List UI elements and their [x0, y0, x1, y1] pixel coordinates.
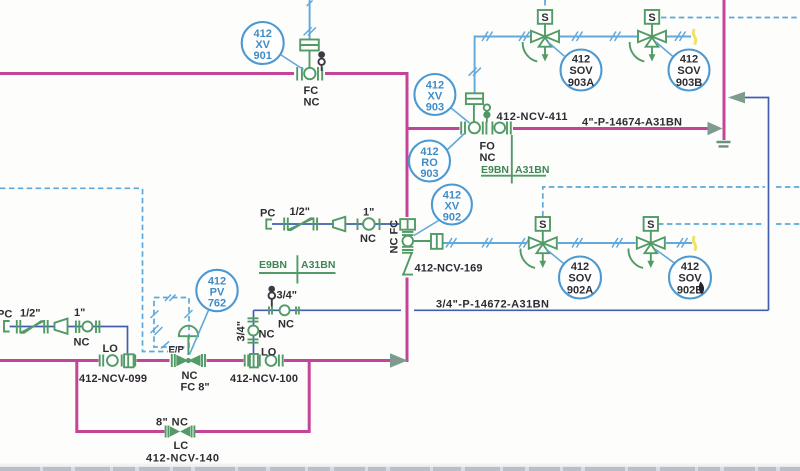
instrument bubble 412 XV 903 — [414, 74, 469, 123]
instrument bubble 412 SOV 903A — [548, 42, 602, 91]
arrow flow 4" line into header — [708, 122, 723, 135]
wire pneumatic line SOV-902A to SOV-902B — [558, 242, 636, 244]
label 4"-P-14674-A31BN — [582, 117, 682, 129]
wire electric signal dashed from SOV-902B — [658, 223, 800, 225]
svg-text:412-NCV-169: 412-NCV-169 — [415, 263, 483, 275]
instrument bubble 412 SOV 902A — [546, 249, 601, 299]
svg-text:412: 412 — [680, 54, 698, 66]
svg-text:1": 1" — [74, 307, 85, 319]
svg-text:E9BN: E9BN — [259, 259, 287, 271]
svg-text:S: S — [541, 12, 548, 24]
svg-text:NC: NC — [259, 329, 275, 341]
slash marks signal XV-901 — [304, 1, 316, 36]
spec break E9BN A31BN upper — [481, 135, 549, 184]
svg-text:902: 902 — [443, 212, 461, 224]
svg-text:412: 412 — [572, 54, 590, 66]
wire pipe 4"-P-14674 line — [409, 127, 708, 130]
slash marks PV-762 signal loop — [151, 295, 193, 349]
wire main 8" pipe bottom — [0, 359, 390, 362]
svg-text:4"-P-14674-A31BN: 4"-P-14674-A31BN — [582, 117, 682, 129]
label NC FC 8" of PV-762 — [181, 370, 210, 394]
svg-text:A31BN: A31BN — [515, 164, 549, 176]
svg-text:412-NCV-411: 412-NCV-411 — [497, 111, 568, 123]
label FC NC of XV-901 — [304, 85, 320, 109]
svg-text:3/4": 3/4" — [277, 290, 298, 302]
valve 3/4" NC on 14672 line — [269, 305, 299, 330]
yellow highlighter mark SOV-902 line end — [693, 236, 696, 251]
svg-text:SOV: SOV — [568, 273, 592, 285]
svg-text:8" NC: 8" NC — [156, 417, 188, 429]
instrument bubble 412 XV 902 — [414, 185, 472, 236]
svg-text:412-NCV-140: 412-NCV-140 — [146, 453, 219, 465]
wire instrument air tubing left PC station — [10, 327, 128, 355]
valve XV-902 body — [402, 232, 413, 250]
valve 412-NCV-100 LO — [230, 346, 298, 385]
svg-text:LC: LC — [174, 440, 189, 452]
svg-text:E9BN: E9BN — [481, 164, 509, 176]
svg-text:412-NCV-100: 412-NCV-100 — [230, 373, 298, 385]
wire signal XV-903 riser and SOV header — [475, 37, 530, 94]
arrow flow main pipe into riser — [390, 353, 408, 367]
wire instrument air tubing upper PC station to XV-902 — [272, 223, 400, 225]
svg-text:1/2": 1/2" — [290, 206, 311, 218]
instrument bubble 412 XV 901 — [242, 22, 304, 70]
node line continuation terminator — [717, 142, 731, 146]
wire pneumatic stub after SOV-903B — [667, 36, 691, 38]
svg-text:PC: PC — [260, 208, 275, 220]
svg-text:3/4"-P-14672-A31BN: 3/4"-P-14672-A31BN — [436, 299, 549, 311]
svg-text:1": 1" — [363, 207, 374, 219]
wire electric signal dashed loop at PV-762 — [154, 298, 189, 348]
solenoid block at XV-902 — [413, 234, 443, 249]
solenoid valve SOV-903A — [523, 10, 559, 62]
svg-text:S: S — [647, 219, 654, 231]
svg-text:903A: 903A — [568, 77, 594, 89]
reducer lower left — [55, 319, 68, 334]
label NC FC rotated at XV-902 — [389, 220, 401, 254]
pen mark near SOV-902B bubble — [699, 282, 704, 295]
spectacle blind 412-NCV-169 — [402, 253, 483, 275]
instrument bubble 412 SOV 903B — [656, 42, 710, 91]
wire signal to XV-901 actuator — [309, 0, 311, 39]
svg-text:NC: NC — [278, 319, 294, 331]
svg-text:LO: LO — [261, 346, 277, 358]
valve 1" NC lower left — [74, 307, 100, 349]
wire pipe 8" header to XV-901 — [0, 72, 409, 75]
sample connection PC 1/2" lower left — [0, 308, 48, 334]
valve 412-NCV-099 LO — [79, 343, 147, 385]
wire electric signal dashed from SOV-902A — [543, 187, 800, 217]
svg-text:NC: NC — [74, 337, 90, 349]
svg-text:3/4": 3/4" — [236, 321, 248, 342]
valve 412-NCV-140 8" NC LC — [146, 417, 219, 465]
spec break E9BN A31BN lower — [259, 255, 336, 283]
yellow highlighter mark SOV-903 line end — [693, 29, 696, 45]
valve XV-903 body — [461, 122, 486, 135]
arrow flow 3/4" line into header — [728, 92, 745, 104]
svg-text:A31BN: A31BN — [301, 259, 335, 271]
check valve 412-NCV-411 — [492, 111, 567, 135]
wire 3/4" line riser right side — [745, 98, 769, 311]
label 3/4"-P-14672-A31BN — [436, 299, 549, 311]
svg-text:762: 762 — [208, 298, 226, 310]
actuator piston XV-902 — [400, 219, 415, 230]
solenoid valve SOV-903B — [630, 10, 666, 62]
actuator piston XV-903 — [466, 93, 483, 122]
actuator diaphragm PV-762 — [178, 326, 199, 355]
wire vertical pipe header right x724 — [723, 0, 726, 140]
reducer upper PC station — [333, 217, 345, 231]
wire vertical pipe riser x407 — [406, 72, 409, 362]
svg-text:FC: FC — [304, 85, 319, 97]
svg-text:NC FC: NC FC — [389, 220, 401, 254]
slash marks SOV-902 header — [446, 238, 688, 248]
sample connection PC 1/2" upper — [260, 206, 317, 231]
wire pneumatic line SOV-903A to SOV-903B — [560, 36, 637, 38]
wire electric signal dashed from SOV-903B to edge — [661, 17, 800, 19]
svg-text:NC: NC — [480, 152, 496, 164]
wire bypass loop pipe NCV-140 — [77, 362, 309, 432]
svg-text:412-NCV-099: 412-NCV-099 — [79, 373, 147, 385]
svg-text:NC: NC — [304, 97, 320, 109]
svg-text:SOV: SOV — [678, 273, 702, 285]
bottom scan edge band — [0, 464, 800, 471]
wire 3/4" branch drop at NCV-100 — [253, 310, 255, 354]
svg-text:NC: NC — [182, 370, 198, 382]
label 3/4" rotated at branch — [236, 321, 248, 342]
label FO NC of XV-903 — [480, 141, 496, 165]
valve 3/4" NC vertical branch — [248, 318, 275, 342]
svg-text:S: S — [539, 219, 546, 231]
svg-text:901: 901 — [254, 50, 272, 62]
svg-text:903: 903 — [420, 168, 438, 180]
wire electric signal dashed above SOV-903A — [544, 0, 546, 7]
svg-text:412: 412 — [681, 261, 699, 273]
svg-text:412: 412 — [571, 261, 589, 273]
svg-text:FC 8": FC 8" — [181, 382, 210, 394]
valve PV-762 body — [172, 354, 205, 367]
svg-text:SOV: SOV — [569, 65, 593, 77]
wire 3/4"-P-14672 line horizontal — [254, 309, 769, 311]
position indicator XV-903 — [483, 104, 490, 122]
wire electric signal dashed top left — [0, 187, 143, 189]
valve 1" NC upper PC station — [358, 207, 380, 246]
instrument bubble 412 PV 762 — [190, 270, 238, 355]
vent plug symbol at 3/4" valve — [268, 286, 297, 307]
svg-text:903B: 903B — [676, 77, 702, 89]
svg-text:1/2": 1/2" — [20, 308, 41, 320]
svg-text:SOV: SOV — [677, 65, 701, 77]
svg-text:E/P: E/P — [169, 345, 185, 356]
wire pneumatic stub after SOV-902B — [666, 242, 692, 244]
position indicator XV-901 — [318, 51, 325, 71]
svg-text:FO: FO — [480, 141, 496, 153]
svg-text:LO: LO — [103, 343, 119, 355]
solenoid valve SOV-902A — [520, 217, 556, 268]
instrument bubble 412 RO 903 — [409, 134, 465, 182]
wire pneumatic line XV-902 to SOV-902A — [443, 242, 528, 244]
instrument bubble 412 SOV 902B — [655, 249, 711, 299]
svg-text:903: 903 — [426, 102, 444, 114]
svg-text:S: S — [648, 12, 655, 24]
svg-text:NC: NC — [360, 233, 376, 245]
svg-text:PC: PC — [0, 309, 12, 321]
wire electric signal dashed drop to PV-762 — [143, 189, 169, 352]
svg-text:902A: 902A — [567, 285, 593, 297]
slash marks signal XV-903 riser — [469, 68, 481, 76]
slash marks SOV-903 header — [482, 32, 686, 42]
solenoid valve SOV-902B — [628, 217, 664, 268]
actuator piston XV-901 — [300, 40, 319, 69]
valve XV-901 body — [297, 67, 322, 81]
converter E/P of PV-762 — [169, 345, 185, 356]
